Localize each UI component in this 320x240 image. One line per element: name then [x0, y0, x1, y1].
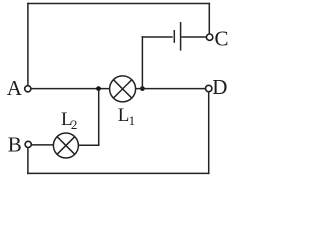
terminal C — [206, 34, 212, 40]
lamp L2 — [53, 133, 78, 158]
wire terminal A to lamp L1 — [31, 88, 110, 90]
wire junction down to L2 row — [98, 89, 100, 146]
svg-text:C: C — [215, 26, 229, 50]
svg-text:A: A — [7, 76, 23, 100]
wire terminal B to lamp L2 — [31, 144, 53, 146]
wire battery row to negative plate — [142, 36, 173, 38]
wire junction up to battery row — [141, 36, 143, 88]
wire positive plate to terminal C — [182, 36, 207, 38]
terminal B — [25, 141, 31, 147]
wire top horizontal — [27, 3, 210, 5]
svg-text:D: D — [212, 75, 227, 99]
lamp L1 — [110, 76, 136, 102]
svg-text:B: B — [8, 133, 22, 157]
label L1 — [118, 105, 135, 128]
terminal A — [25, 86, 31, 92]
wire terminal B down to bottom wire — [27, 147, 29, 174]
wire top-right vertical (top wire to terminal C) — [208, 3, 210, 35]
svg-text:2: 2 — [71, 117, 78, 132]
junction dot (node right of L1, to battery branch) — [140, 86, 145, 91]
wire left vertical (top-left corner to terminal A) — [27, 3, 29, 86]
terminal D — [206, 85, 212, 91]
label L2 — [61, 109, 77, 132]
svg-text:1: 1 — [129, 113, 136, 128]
battery cell positive plate (long thin) — [180, 22, 182, 51]
wire terminal D down to bottom wire — [208, 92, 210, 175]
wire L2 row horizontal to lamp L2 — [78, 144, 99, 146]
battery cell negative plate (short thick) — [173, 30, 175, 43]
wire bottom horizontal — [27, 172, 209, 174]
junction dot (node below L1 left, to L2 branch) — [96, 86, 101, 91]
wire lamp L1 to terminal D — [136, 88, 206, 90]
